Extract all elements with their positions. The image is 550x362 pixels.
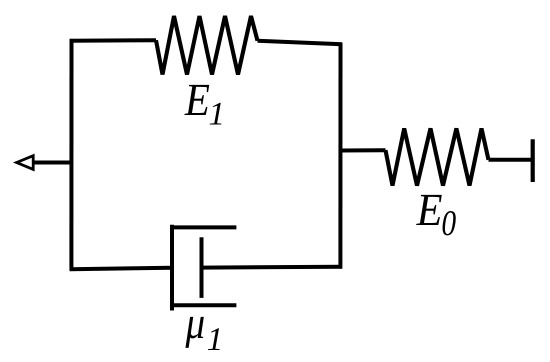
svg-text:0: 0 bbox=[441, 203, 456, 243]
svg-text:μ: μ bbox=[185, 297, 205, 348]
svg-text:E: E bbox=[184, 74, 210, 125]
svg-text:E: E bbox=[416, 184, 443, 235]
svg-text:1: 1 bbox=[209, 97, 226, 133]
svg-text:1: 1 bbox=[207, 322, 224, 358]
